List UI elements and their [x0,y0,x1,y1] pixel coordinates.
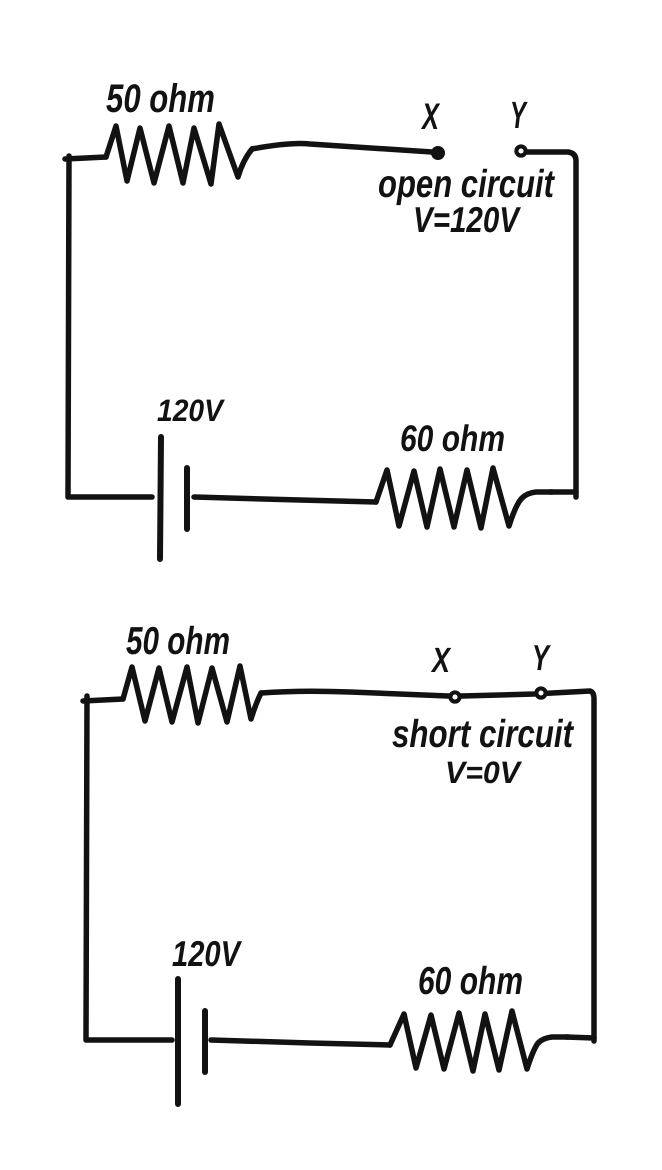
svg-text:Y: Y [532,637,551,678]
wire: bottom-right horizontal (bottom circuit) [566,1037,594,1038]
battery B2 short plate (bottom circuit) [202,1011,208,1072]
svg-text:50 ohm: 50 ohm [126,620,230,663]
resistor R4 60 ohm (bottom circuit) [390,1011,568,1071]
svg-text:60 ohm: 60 ohm [418,960,523,1003]
wire: left vertical of top circuit [68,156,152,497]
svg-text:V=0V: V=0V [445,755,522,790]
wire: left vertical of bottom circuit [86,696,172,1040]
svg-text:120V: 120V [172,933,242,974]
svg-text:60 ohm: 60 ohm [400,418,505,459]
battery B2 long plate (bottom circuit) [175,979,181,1104]
wire: R3 through X and Y to right vertical (bottom circuit) [261,691,594,1041]
node X terminal ring (bottom circuit) [450,692,459,701]
node Y terminal ring (top circuit) [516,146,525,155]
svg-text:Y: Y [510,95,528,137]
resistor R1 50 ohm (top circuit) [106,124,252,184]
node X terminal dot (top circuit) [431,146,445,160]
battery B1 short plate (top circuit) [184,468,190,529]
wire: battery to R2 (top circuit) [194,497,376,502]
wire: bottom-right horizontal (top circuit) [550,489,576,495]
resistor R2 60 ohm (top circuit) [376,468,552,528]
svg-text:X: X [430,641,452,680]
wire: node Y to right vertical (top circuit) [527,152,576,497]
battery B1 long plate (top circuit) [160,437,161,559]
svg-text:V=120V: V=120V [413,199,521,240]
svg-text:X: X [421,96,441,137]
wire: battery to R4 (bottom circuit) [211,1040,390,1045]
svg-text:120V: 120V [157,393,225,428]
wire: top-left stub of top circuit [65,157,106,159]
resistor R3 50 ohm (bottom circuit) [123,666,261,723]
svg-text:short circuit: short circuit [392,713,575,756]
svg-text:50 ohm: 50 ohm [106,77,215,121]
node Y terminal ring (bottom circuit) [536,688,545,697]
wire: top-left stub of bottom circuit [83,699,123,701]
wire: R1 to node X (top circuit) [252,144,432,152]
